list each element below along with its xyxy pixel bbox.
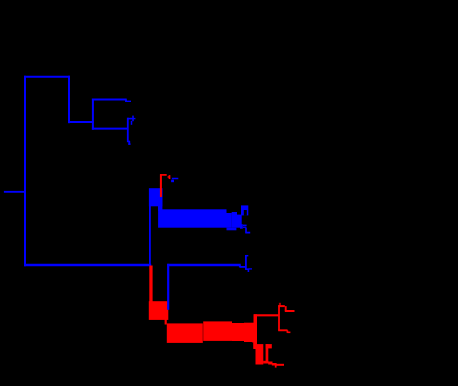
red twig dot [168, 176, 169, 178]
red clade blob A [149, 301, 169, 320]
long branch y264 to right subtree [167, 264, 241, 266]
right subtree bottom tick [248, 268, 252, 270]
tip end dash [125, 100, 131, 102]
branch to lower subtree y128 [92, 128, 128, 130]
upper clade vertical [68, 76, 70, 124]
bar lower lip [227, 228, 237, 231]
red bar segment 1 [167, 323, 203, 343]
subtree short vertical [131, 121, 133, 125]
red bottom step2 [272, 363, 276, 366]
blue dense bar of tips [158, 209, 226, 227]
red bottom tick [287, 331, 290, 333]
bar right section 2 [232, 212, 237, 228]
red blobA-bar bridge [165, 319, 167, 325]
red bottom step block [268, 362, 272, 365]
upper clade horizontal [68, 121, 94, 123]
red bottom branch horizontal y330 [278, 329, 287, 331]
bar right section 3 [237, 215, 242, 228]
red lower vertical [266, 344, 269, 363]
subtree plus horizontal [130, 118, 135, 120]
red lower connector block [252, 336, 255, 342]
vertical connector x168 into red clade (drawn over red blob) [167, 264, 169, 310]
red bottom horizontal block [263, 361, 268, 364]
right subtree lower dash [240, 266, 246, 268]
upper clade branch top [24, 76, 70, 78]
subtree top tick [128, 118, 132, 120]
blue twig square [171, 180, 174, 183]
bar right corner block [240, 224, 243, 229]
subtree bottom step [128, 140, 130, 142]
root vertical connector [24, 76, 26, 267]
subtree bottom foot dash [128, 143, 130, 145]
node vertical x92 [92, 99, 94, 130]
blue twig dash near top [172, 178, 178, 180]
red edge down from node x150 [149, 266, 152, 302]
small subtree vertical x128 [127, 118, 129, 143]
red right vertical x279 [278, 305, 280, 330]
right subtree vertical x246 [245, 255, 247, 270]
bar tail vertical [245, 228, 247, 234]
red lower square [266, 344, 272, 348]
bar right dash 1 [243, 224, 247, 226]
twig block notch [244, 210, 247, 215]
right subtree bottom foot [247, 269, 249, 272]
root edge [4, 191, 26, 193]
blue clade dense blob [149, 188, 163, 206]
bar upper right twig block [241, 205, 248, 215]
lower clade main horizontal y264 [24, 264, 151, 266]
red bottom dip [275, 363, 277, 368]
red top branch horizontal [278, 305, 285, 307]
bar right dash 2 [243, 226, 246, 228]
right subtree step down [239, 265, 241, 267]
vertical from blue blob to node x150 [149, 205, 151, 266]
red lower connector vertical [253, 342, 255, 349]
red step vertical x285.7 [285, 306, 287, 311]
red twig vertical above blob [160, 174, 162, 197]
red mid horizontal to x279 [254, 314, 279, 316]
right subtree top tick [246, 255, 248, 257]
subtree plus vertical [132, 116, 134, 122]
bar tail dash [245, 232, 250, 234]
red twig small vertical [169, 175, 171, 179]
tip step down [125, 100, 127, 103]
red twig horizontal [160, 174, 167, 176]
red bottom step vertical [286, 330, 288, 333]
red bar segment 4 [244, 323, 254, 342]
red right vertical connector [254, 314, 258, 349]
branch to tip y99 [92, 99, 127, 101]
red branch horizontal y311 [285, 310, 295, 312]
red bar segment 2 [203, 321, 232, 341]
red top bump [279, 303, 281, 306]
subtree bottom foot vertical [128, 141, 130, 145]
blob-bar bridge [158, 205, 162, 211]
red bottom end dash [276, 364, 284, 366]
bar right section 1 [227, 213, 232, 228]
red lower blob B [256, 344, 264, 364]
right subtree bottom dash [246, 268, 249, 270]
red bar segment 3 [232, 323, 244, 341]
